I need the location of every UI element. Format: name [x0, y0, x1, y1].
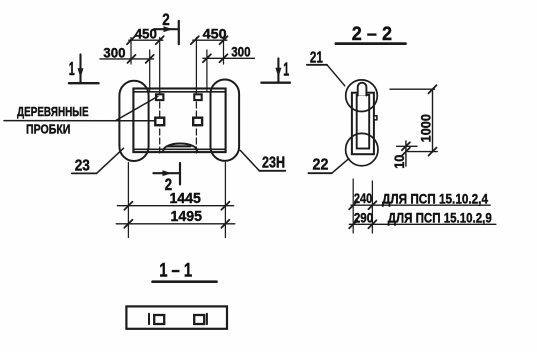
- dimension line 1445: [117, 205, 233, 207]
- leader 23Н: diagonal: [240, 150, 259, 170]
- svg-text:23: 23: [75, 158, 91, 175]
- svg-text:2 – 2: 2 – 2: [352, 23, 392, 45]
- extension line x=206.9: [206, 50, 208, 91]
- dimension line 450 right: [193, 39, 227, 41]
- section cut 2 top: arrowhead: [164, 26, 173, 32]
- tick: [429, 85, 437, 93]
- tick: [146, 55, 154, 63]
- tick: [127, 36, 135, 44]
- svg-text:1495: 1495: [171, 208, 203, 225]
- row line 290: [349, 223, 496, 225]
- left lifting loop 23: [119, 81, 148, 161]
- tick: [349, 220, 357, 228]
- plug left square: [154, 315, 164, 324]
- extension line x=149.7: [149, 50, 151, 91]
- dimension line 1495: [116, 223, 235, 225]
- section cut 2 bottom: vertical line: [179, 163, 181, 184]
- bottom recess dome: [163, 143, 197, 150]
- wooden plug top-right: [194, 94, 201, 100]
- detail circle top (21): [346, 80, 378, 112]
- centerline left plug column: [159, 38, 161, 94]
- leader 23Н: underline: [259, 170, 285, 172]
- section cut 2 bottom: arrowhead: [163, 170, 172, 176]
- svg-text:450: 450: [135, 27, 157, 42]
- section 2-2 panel outer rect: [352, 93, 374, 155]
- svg-text:1000: 1000: [419, 114, 434, 142]
- svg-text:1445: 1445: [169, 190, 201, 207]
- plug left tick: [148, 314, 150, 324]
- section cut 1 right: arrow shaft: [277, 58, 279, 82]
- extension line x=223.5: [223, 38, 225, 65]
- tick: [203, 54, 211, 62]
- leader 23: underline: [72, 172, 97, 174]
- detail circle bottom (22): [346, 133, 378, 165]
- leader 23: diagonal: [97, 148, 124, 173]
- 1000 dim: bottom extension line: [408, 151, 438, 153]
- 1000 dim: top extension line: [390, 88, 435, 90]
- svg-text:450: 450: [203, 27, 227, 42]
- dome inner line: [168, 145, 191, 147]
- extension line left for 1445/1495: [127, 163, 129, 238]
- plug stub item 21: [358, 83, 367, 96]
- extension line x=131: [130, 38, 132, 65]
- tick: [220, 54, 228, 62]
- tick: [429, 148, 437, 156]
- svg-text:21: 21: [310, 50, 323, 67]
- svg-text:1: 1: [69, 59, 75, 79]
- 240/290 vertical extension 1: [352, 179, 354, 233]
- tick: [124, 220, 132, 228]
- right lifting loop 23Н: [211, 80, 240, 161]
- tick: [220, 36, 228, 44]
- 240/290 vertical extension 2: [371, 181, 373, 233]
- svg-text:240: 240: [354, 191, 373, 206]
- tick: [349, 201, 357, 209]
- leader line: wooden plugs horizontal: [4, 120, 154, 122]
- section cut 1 left: cut line: [69, 82, 99, 84]
- title 2-2 underline: [336, 42, 406, 45]
- svg-text:ПРОБКИ: ПРОБКИ: [26, 122, 70, 137]
- svg-text:ДЛЯ ПСП 15.10.2,9: ДЛЯ ПСП 15.10.2,9: [388, 211, 492, 226]
- svg-text:22: 22: [313, 157, 329, 174]
- svg-text:1 – 1: 1 – 1: [159, 260, 192, 281]
- dimension line 300 right: [203, 57, 255, 59]
- panel top inner edge line: [133, 91, 225, 93]
- row line 240: [351, 204, 490, 206]
- leader 22: underline: [308, 172, 331, 174]
- leader 21: underline: [307, 64, 327, 66]
- svg-text:23Н: 23Н: [262, 155, 285, 172]
- centerline right plug column: [195, 38, 197, 94]
- tick: [128, 55, 136, 63]
- section cut 1 left: arrowhead down: [78, 68, 84, 78]
- plug right square: [194, 315, 204, 324]
- section 2-2 hollow core inner rect: [357, 95, 370, 149]
- small tab right side: [374, 116, 377, 120]
- svg-text:2: 2: [162, 10, 170, 29]
- dimension line 450 left: [129, 39, 163, 41]
- title 1-1 underline: [153, 280, 217, 283]
- wooden plug mid-right: [193, 118, 202, 126]
- svg-text:ДЛЯ ПСП 15.10.2,4: ДЛЯ ПСП 15.10.2,4: [382, 191, 488, 206]
- section cut 2 top: vertical line: [178, 21, 180, 44]
- leader line: wooden plugs diagonal to top plug: [116, 96, 158, 120]
- tick: [156, 36, 164, 44]
- tick: [221, 220, 229, 228]
- extension line right for 1445/1495: [224, 163, 226, 238]
- tick: [402, 142, 410, 150]
- svg-text:300: 300: [231, 44, 250, 59]
- section cut 2 top: arrow shaft: [154, 28, 177, 30]
- tick: [368, 220, 376, 228]
- tick: [368, 201, 376, 209]
- section cut 2 bottom: arrow shaft: [153, 172, 179, 174]
- svg-text:300: 300: [103, 45, 125, 60]
- panel bottom inner edge line: [133, 148, 225, 150]
- svg-text:ДЕРЕВЯННЫЕ: ДЕРЕВЯННЫЕ: [17, 104, 89, 119]
- section 1-1 bar outline: [126, 306, 227, 328]
- panel outline (plan): [133, 89, 225, 153]
- tick: [124, 202, 132, 210]
- dimension line 300 left: [100, 58, 154, 60]
- section cut 1 left: arrow shaft: [79, 54, 81, 82]
- svg-text:290: 290: [354, 211, 373, 226]
- leader 21: diagonal: [327, 65, 345, 86]
- svg-text:1: 1: [283, 60, 289, 80]
- wooden plug top-left: [156, 94, 163, 100]
- 10 dim: upper line: [397, 145, 417, 147]
- plug right tick: [206, 314, 208, 324]
- tick: [191, 36, 199, 44]
- wooden plug mid-left: [155, 118, 164, 126]
- 1000 dim line vertical: [432, 89, 434, 151]
- tick: [221, 202, 229, 210]
- section cut 1 right: cut line: [261, 81, 290, 83]
- tick: [402, 148, 410, 156]
- svg-text:10: 10: [392, 155, 407, 169]
- leader 22: diagonal: [332, 159, 349, 174]
- 10 dim vertical: [405, 141, 407, 166]
- section cut 1 right: arrowhead down: [275, 68, 281, 78]
